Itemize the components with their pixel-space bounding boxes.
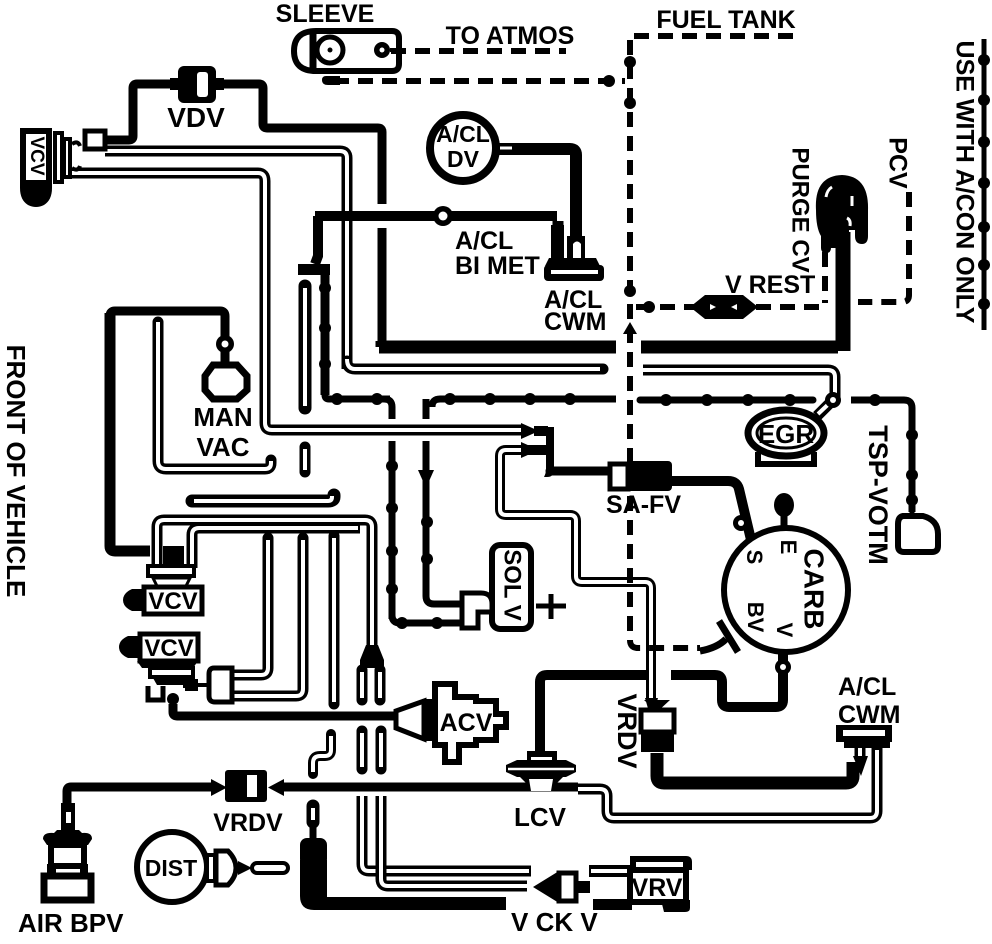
wire: BI MET line right-end drop beside DV drop (553, 221, 564, 256)
wire: MAN VAC branch hose (double line, upturned capped end) (158, 322, 271, 469)
wire: CARB bottom stem, around to LCV (671, 651, 783, 707)
wire: A/CL BI MET horizontal line (298, 216, 557, 395)
svg-text:DV: DV (447, 146, 480, 172)
component: V REST (inline lens) (690, 295, 758, 319)
dot+arrow on V REST dashed (643, 301, 655, 313)
svg-text:VRDV: VRDV (213, 809, 283, 837)
svg-text:TO ATMOS: TO ATMOS (446, 22, 575, 50)
arrow: into VRDV left side (211, 779, 227, 796)
dashed: purge cv left leg drop (822, 252, 828, 303)
dots on y623 (396, 617, 408, 629)
wire: hose stub x305 below dotted line (300, 447, 311, 472)
wire: hose A from connector up (double line) (232, 538, 268, 675)
CARB top knob (781, 516, 788, 528)
component: LCV inline valve (506, 751, 576, 791)
wire: stub to ACV funnel (393, 712, 399, 721)
wire: nest outer hose (VCV1 left port up, right, down to funnel) (157, 520, 372, 648)
svg-text:FRONT OF VEHICLE: FRONT OF VEHICLE (1, 345, 31, 598)
svg-text:PCV: PCV (883, 137, 911, 189)
arrow: into VRDV right side (268, 779, 284, 796)
svg-text:LCV: LCV (514, 802, 567, 832)
svg-text:V: V (772, 623, 797, 638)
svg-text:VCV: VCV (26, 136, 47, 175)
svg-text:CWM: CWM (544, 308, 606, 336)
svg-text:A/CL: A/CL (455, 227, 513, 255)
svg-text:BV: BV (743, 602, 768, 633)
dashed: sleeve to atmos (391, 48, 566, 54)
wire: SA-FV feed from junction (550, 467, 612, 476)
wire: heavy line y347 from x382 corner to dashed line (379, 341, 616, 347)
svg-text:CARB: CARB (799, 549, 830, 630)
wire: hose C vertical stub (double line capped) (329, 536, 340, 704)
wire: heavy line y347 right of dashed, corner up to PURGE CV (641, 341, 838, 354)
arrow: into junction from upper hose (521, 423, 539, 439)
wire: steppy hose from SA-FV junction down to VRDV right (double line) (500, 450, 658, 712)
valve VRDV (left) (225, 770, 267, 802)
arrow: down arrow on x426 (418, 470, 434, 488)
component: AIR BPV (43, 803, 92, 900)
dot under VCV2 (167, 693, 179, 705)
svg-text:DIST: DIST (145, 855, 197, 881)
svg-text:VCV: VCV (148, 588, 197, 615)
wire: dotted line y399 segment 2 (432, 399, 616, 407)
wire: twin hose stubs between ACV line and VRDV line (362, 731, 381, 769)
wire: VCV2 to ACV line (171, 700, 175, 708)
wire: dotted line y399 segment 3 (right of dashed) (640, 397, 813, 404)
dots on fuel tank dashed (603, 75, 615, 87)
dashed: V REST line (636, 304, 820, 310)
svg-text:VRDV: VRDV (612, 693, 642, 768)
dashed: sleeve lower to fuel tank line (334, 78, 625, 84)
component: EGR (748, 410, 824, 464)
svg-text:V CK V: V CK V (511, 907, 598, 937)
svg-text:VAC: VAC (197, 432, 250, 462)
svg-text:A/CL: A/CL (436, 121, 490, 147)
wire: capsule hose above VCV nest (192, 495, 334, 501)
svg-text:VRV: VRV (632, 874, 683, 902)
component: SA-FV solenoid (610, 461, 672, 491)
wire: x392 foot to SOL V lower port (392, 615, 462, 623)
component: A/CL CWM (right) (836, 725, 892, 776)
fork bar (298, 264, 330, 275)
component: VRV (630, 856, 692, 912)
component: connector block (twin hose ends) (185, 668, 232, 702)
wire: dotted manifold line y399 segment 1 (from x325 corner) (325, 395, 390, 399)
svg-text:A/CL: A/CL (838, 673, 896, 701)
arrow on fuel tank dashed (623, 322, 637, 334)
wire: hose B from connector up (double line) (232, 538, 303, 696)
svg-text:AIR BPV: AIR BPV (18, 908, 124, 938)
wire: funnel split to twin caps below nest (360, 645, 384, 700)
node ring: EGR line crossing (825, 392, 841, 408)
wire: dotted line y399 segment 4 + corner down to TSP-VOTM (851, 400, 912, 512)
svg-text:E: E (776, 540, 801, 555)
node ring: BI MET line (433, 206, 453, 226)
dashed: fuel tank top corner (634, 33, 796, 39)
wire: VCV upper hose going right then down then right (double line) (105, 151, 603, 369)
wire: VDV right line going right, down, right, down to heavy line (214, 84, 382, 204)
dots on x325 (319, 282, 331, 294)
fork symbol at CARB BV port (700, 621, 738, 652)
dots on x392 (386, 460, 398, 472)
wire: LCV return hose to A/CL CWM right prong (double line) (578, 748, 877, 818)
dots on y399 (331, 393, 343, 405)
junction elbow block (544, 427, 554, 477)
svg-text:S: S (742, 550, 767, 565)
component: TSP-VOTM box (898, 508, 938, 552)
valve VDV (170, 66, 224, 103)
component: PURGE CV (816, 175, 868, 256)
wire: USE WITH A/CON ONLY vertical line with dots (978, 39, 990, 330)
dashed: PCV drop (858, 192, 909, 302)
svg-text:SA-FV: SA-FV (606, 491, 681, 519)
valve VCV (far left) (20, 128, 105, 207)
svg-text:SLEEVE: SLEEVE (276, 0, 375, 28)
wire: nest inner hose (VCV1 right port up then right) (192, 528, 360, 568)
wire: corner down into x392 vertical (384, 399, 392, 419)
wire: DIST heavy L line (300, 838, 327, 866)
wire: hose elbow left of twin stubs (313, 734, 331, 774)
wire: VDV left line to VCV connector (104, 84, 180, 140)
dots on TSP line (906, 429, 918, 441)
wire: A/CL DV output right, corner down to A/CL CWM (497, 149, 576, 256)
node ring: MAN VAC tee (216, 335, 234, 353)
wire: hose stub above DIST connector (307, 806, 320, 842)
svg-text:FUEL TANK: FUEL TANK (656, 6, 795, 34)
svg-text:CWM: CWM (838, 701, 900, 729)
wire: left end drop into fork (315, 216, 318, 264)
svg-text:BI MET: BI MET (455, 252, 540, 280)
dots on x426 (421, 516, 433, 528)
wire: twin hoses down to V CK V (double lines) (362, 796, 531, 886)
wire: fork left hose x305 (open capped both ends) (299, 286, 312, 408)
svg-text:VDV: VDV (167, 102, 225, 133)
svg-text:USE WITH A/CON ONLY: USE WITH A/CON ONLY (950, 41, 978, 324)
wire: x325 thick drop from fork to dotted line (321, 275, 330, 395)
component: CARB (circle with ports) (724, 493, 848, 652)
wire: MAN VAC supply line (110, 311, 225, 365)
svg-text:SOL V: SOL V (499, 549, 526, 621)
wire: SA-FV output slant to CARB (672, 481, 752, 544)
node ring: SA-FV slant (733, 515, 749, 531)
svg-text:TSP-VOTM: TSP-VOTM (863, 425, 893, 565)
svg-text:PURGE CV: PURGE CV (787, 147, 814, 272)
node ring: CARB bottom stem (775, 659, 791, 675)
component: VCV2 assembly (119, 634, 198, 700)
dot under VRDV right (651, 758, 663, 770)
component: SLEEVE (294, 31, 404, 71)
svg-text:EGR: EGR (758, 419, 815, 449)
wire: x382 segment below BI MET line (378, 228, 387, 341)
svg-text:MAN: MAN (193, 402, 252, 432)
wire: x426 vertical to SOL V upper port (423, 399, 430, 419)
component: A/CL CWM (top) (544, 221, 604, 281)
wire: AIR BPV / VRDV-left / LCV main line (67, 787, 213, 810)
component: SOL V (462, 545, 566, 629)
component: ACV valve (396, 684, 506, 762)
component: DIST (137, 832, 288, 902)
svg-text:V REST: V REST (725, 271, 815, 299)
wire: EGR feed double line right of fuel-tank dashed (643, 370, 835, 416)
svg-text:ACV: ACV (440, 709, 493, 737)
valve A/CL DV (circle) (430, 115, 496, 181)
wire: VRDV right output down, right, up to A/CL CWM left prong (657, 753, 853, 783)
component: MAN VAC hexagon (205, 365, 247, 399)
component: VCV1 assembly (123, 546, 202, 615)
valve VRDV (right) (641, 700, 674, 752)
arrow: into junction from steppy hose (521, 442, 539, 458)
component: V CK V check valve (533, 871, 632, 910)
svg-text:VCV: VCV (144, 635, 193, 662)
wire: VCV lower hose to SA-FV junction (double line) (70, 173, 523, 430)
dashed: fuel tank vertical (630, 40, 700, 648)
